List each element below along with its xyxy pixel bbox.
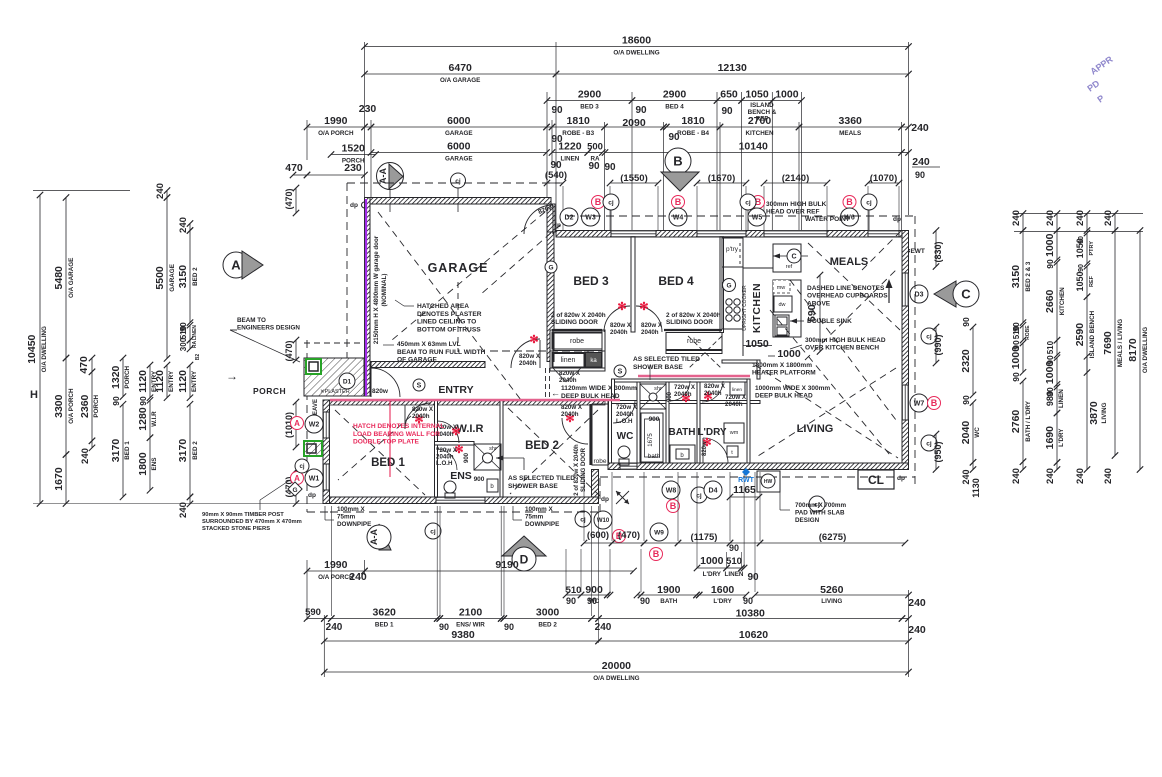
svg-text:ENTRY: ENTRY — [438, 384, 473, 396]
svg-text:900: 900 — [474, 476, 485, 483]
svg-text:W2: W2 — [309, 422, 320, 429]
svg-text:A-A: A-A — [378, 168, 388, 184]
svg-text:B: B — [931, 398, 938, 408]
windows left wall W1 W2 — [323, 412, 330, 438]
svg-text:1120: 1120 — [137, 370, 149, 393]
svg-text:5500: 5500 — [154, 266, 166, 290]
svg-text:D3: D3 — [915, 292, 924, 299]
svg-text:ENGINEERS DESIGN: ENGINEERS DESIGN — [237, 325, 300, 332]
garage top wall — [365, 198, 552, 205]
svg-text:SLIDING DOOR: SLIDING DOOR — [581, 447, 587, 492]
svg-text:PORCH: PORCH — [253, 386, 286, 396]
svg-text:GARAGE: GARAGE — [445, 156, 473, 163]
svg-text:2660: 2660 — [1044, 289, 1056, 313]
svg-text:3360: 3360 — [839, 115, 863, 127]
svg-text:(2140): (2140) — [782, 173, 809, 184]
svg-text:1050: 1050 — [745, 338, 769, 350]
svg-text:90: 90 — [640, 596, 650, 606]
garage right wall — [547, 232, 554, 362]
svg-text:820w X: 820w X — [704, 383, 726, 390]
svg-text:1120: 1120 — [177, 370, 189, 393]
svg-text:3170: 3170 — [177, 439, 189, 463]
svg-text:O/A DWELLING: O/A DWELLING — [1142, 327, 1149, 373]
svg-text:240: 240 — [155, 183, 166, 199]
svg-text:3170: 3170 — [110, 439, 122, 463]
G diamond — [288, 482, 302, 496]
svg-text:(1670): (1670) — [708, 173, 735, 184]
svg-text:90: 90 — [504, 622, 514, 632]
svg-text:3000: 3000 — [536, 607, 560, 619]
svg-text:O/A DWELLING: O/A DWELLING — [613, 50, 659, 57]
svg-text:bath: bath — [648, 453, 661, 460]
svg-text:B: B — [595, 197, 602, 207]
door hall — [511, 339, 540, 368]
svg-text:1990: 1990 — [324, 115, 348, 127]
svg-text:dp: dp — [350, 202, 358, 209]
svg-text:510: 510 — [179, 325, 188, 339]
svg-text:SURROUNDED BY 470mm X 470mm: SURROUNDED BY 470mm X 470mm — [202, 519, 302, 525]
svg-text:1130: 1130 — [971, 478, 981, 498]
wc toilet — [618, 446, 630, 458]
svg-text:240: 240 — [326, 622, 343, 633]
svg-text:O/A PORCH: O/A PORCH — [318, 130, 354, 137]
svg-text:ref: ref — [786, 264, 793, 270]
svg-text:✕PLASTER: ✕PLASTER — [320, 389, 350, 395]
right big columns — [1014, 213, 1143, 215]
svg-text:BED 2: BED 2 — [192, 267, 199, 286]
section marker A left — [223, 252, 249, 278]
svg-text:MEALS: MEALS — [830, 256, 869, 268]
svg-text:BATH: BATH — [660, 598, 677, 605]
svg-text:B: B — [670, 501, 677, 511]
svg-text:3620: 3620 — [373, 607, 397, 619]
robe bed4 — [666, 333, 722, 350]
svg-text:p'try: p'try — [726, 246, 739, 253]
svg-text:6470: 6470 — [449, 62, 473, 74]
svg-text:BED 2: BED 2 — [538, 622, 557, 629]
section marker D bottom — [502, 536, 546, 556]
svg-text:cj: cj — [926, 333, 932, 340]
svg-text:DOUBLE SINK: DOUBLE SINK — [807, 318, 852, 325]
svg-text:20000: 20000 — [602, 660, 631, 672]
door bath — [670, 381, 690, 401]
svg-text:BED 2: BED 2 — [525, 440, 559, 452]
svg-text:REF: REF — [1089, 275, 1095, 287]
svg-text:DOWNPIPE: DOWNPIPE — [337, 521, 371, 528]
svg-text:1000: 1000 — [1044, 361, 1056, 385]
ens toilet — [444, 481, 456, 493]
magenta bulkhead line long — [330, 399, 620, 401]
svg-text:820w: 820w — [702, 441, 708, 456]
svg-text:dp: dp — [601, 496, 609, 503]
svg-text:OVER KITCHEN BENCH: OVER KITCHEN BENCH — [805, 345, 879, 352]
svg-text:240: 240 — [1075, 210, 1086, 226]
svg-text:1800: 1800 — [137, 452, 149, 476]
svg-text:cj: cj — [926, 440, 932, 447]
svg-text:90: 90 — [604, 162, 616, 173]
svg-text:HATCH DENOTES INTERNAL: HATCH DENOTES INTERNAL — [353, 423, 444, 430]
bed wing bottom wall — [323, 497, 599, 504]
svg-text:2590: 2590 — [1074, 323, 1086, 347]
svg-text:BED 2: BED 2 — [192, 441, 199, 460]
svg-text:cj: cj — [745, 199, 751, 206]
door bed2 — [562, 418, 588, 444]
svg-text:(990): (990) — [933, 334, 943, 355]
kitchen overhead dashed — [722, 362, 757, 364]
svg-text:BED 4: BED 4 — [658, 274, 694, 288]
svg-text:2320: 2320 — [960, 349, 972, 373]
svg-text:GARAGE: GARAGE — [445, 130, 473, 137]
svg-text:(NOMINAL): (NOMINAL) — [381, 274, 388, 307]
svg-text:90: 90 — [961, 395, 971, 405]
svg-text:DESIGN: DESIGN — [795, 517, 820, 524]
svg-text:OF GARAGE: OF GARAGE — [397, 357, 438, 364]
svg-text:dp: dp — [893, 216, 901, 223]
svg-text:robe: robe — [593, 458, 606, 465]
svg-text:900: 900 — [585, 584, 603, 596]
svg-text:3150: 3150 — [1010, 265, 1022, 289]
svg-text:linen: linen — [561, 357, 576, 364]
svg-text:(540): (540) — [545, 170, 567, 181]
svg-text:1050: 1050 — [745, 89, 769, 101]
svg-text:2040h: 2040h — [725, 401, 743, 408]
svg-text:240: 240 — [1103, 210, 1114, 226]
svg-text:DOWNPIPE: DOWNPIPE — [525, 521, 559, 528]
svg-text:W8: W8 — [666, 488, 677, 495]
door wc — [613, 401, 635, 423]
svg-text:dw: dw — [778, 302, 785, 308]
svg-text:DENOTES PLASTER: DENOTES PLASTER — [417, 311, 482, 318]
purple garage line — [365, 199, 367, 396]
svg-text:ENS/ WIR: ENS/ WIR — [456, 622, 485, 629]
svg-text:B: B — [653, 549, 660, 559]
svg-text:1000mm WIDE X 300mm: 1000mm WIDE X 300mm — [755, 385, 830, 392]
svg-text:820w X: 820w X — [519, 353, 541, 360]
svg-text:3300: 3300 — [53, 394, 65, 418]
svg-text:L'DRY: L'DRY — [1058, 428, 1065, 447]
svg-text:3870: 3870 — [1088, 401, 1100, 425]
svg-text:2040h: 2040h — [704, 390, 722, 397]
svg-text:1050: 1050 — [1075, 271, 1085, 291]
svg-text:cj: cj — [608, 199, 614, 206]
living bottom wall — [608, 463, 909, 470]
svg-text:980: 980 — [1045, 391, 1055, 406]
svg-text:SHOWER BASE: SHOWER BASE — [633, 364, 683, 371]
svg-text:S: S — [417, 383, 422, 390]
svg-text:500: 500 — [587, 142, 603, 153]
svg-text:HW: HW — [764, 479, 773, 485]
svg-text:18600: 18600 — [622, 35, 651, 47]
svg-text:510: 510 — [566, 585, 582, 596]
svg-text:510: 510 — [1046, 340, 1055, 354]
ka box — [586, 353, 602, 368]
svg-text:LIVING: LIVING — [1101, 402, 1108, 423]
svg-text:ISLAND BENCH: ISLAND BENCH — [1089, 310, 1096, 358]
svg-text:(600): (600) — [587, 530, 609, 541]
svg-text:LINED CEILING TO: LINED CEILING TO — [417, 319, 476, 326]
svg-text:W.I.R: W.I.R — [151, 411, 158, 427]
svg-text:BED 1: BED 1 — [124, 441, 131, 460]
svg-text:240: 240 — [1011, 210, 1022, 226]
svg-text:WC: WC — [974, 427, 981, 438]
bed2 dashes — [508, 408, 600, 496]
svg-text:12130: 12130 — [718, 62, 747, 74]
svg-text:900: 900 — [667, 391, 673, 402]
svg-text:dp: dp — [897, 475, 905, 482]
porch piers — [304, 358, 364, 396]
closet CL — [858, 470, 894, 489]
svg-text:AS SELECTED TILED: AS SELECTED TILED — [508, 475, 575, 482]
svg-text:BED 3: BED 3 — [580, 104, 599, 111]
svg-text:LIVING: LIVING — [797, 423, 834, 435]
svg-text:10140: 10140 — [739, 141, 768, 153]
svg-text:2040: 2040 — [960, 421, 972, 445]
svg-text:PAD WITH SLAB: PAD WITH SLAB — [795, 510, 845, 517]
svg-text:1120mm WIDE X 300mm: 1120mm WIDE X 300mm — [561, 385, 637, 392]
sliding doors bed4 — [664, 329, 722, 331]
svg-text:B: B — [675, 197, 682, 207]
svg-text:510: 510 — [1012, 325, 1021, 339]
svg-text:OVERHEAD CUPBOARDS: OVERHEAD CUPBOARDS — [807, 293, 888, 300]
svg-text:1900: 1900 — [657, 584, 681, 596]
svg-text:2040h: 2040h — [674, 391, 692, 398]
svg-text:BED 2 & 3: BED 2 & 3 — [1025, 261, 1032, 292]
svg-text:UPRIGHT COOKER: UPRIGHT COOKER — [742, 285, 748, 331]
svg-text:cj: cj — [455, 178, 461, 185]
svg-text:2 of 820w X 2040h: 2 of 820w X 2040h — [551, 312, 606, 319]
svg-text:robe: robe — [570, 338, 584, 345]
svg-text:2 of 820w X 2040h: 2 of 820w X 2040h — [574, 444, 580, 496]
svg-text:dp: dp — [308, 492, 316, 499]
svg-text:W9: W9 — [654, 529, 664, 536]
left dimension block — [33, 190, 130, 192]
svg-text:3150: 3150 — [177, 265, 189, 289]
svg-text:cj: cj — [580, 516, 586, 523]
garage bottom wall — [371, 362, 485, 368]
svg-text:A-A: A-A — [369, 529, 379, 545]
hall bulkhead dashes — [490, 350, 605, 352]
svg-text:90: 90 — [1078, 264, 1085, 272]
svg-text:DEEP BULK HEAD: DEEP BULK HEAD — [755, 393, 813, 400]
svg-text:✻: ✻ — [529, 334, 538, 346]
svg-text:1990: 1990 — [324, 559, 348, 571]
svg-text:CL: CL — [868, 473, 884, 487]
svg-text:2900: 2900 — [663, 89, 687, 101]
svg-text:230: 230 — [359, 103, 377, 115]
svg-text:STACKED STONE PIERS: STACKED STONE PIERS — [202, 526, 270, 532]
svg-text:1000: 1000 — [700, 555, 724, 567]
svg-text:7690: 7690 — [1102, 331, 1114, 355]
svg-text:75mm: 75mm — [525, 514, 544, 521]
hws — [757, 471, 780, 492]
svg-text:DOUBLE TOP PLATE: DOUBLE TOP PLATE — [353, 439, 420, 446]
red A circles left — [291, 417, 304, 430]
svg-text:D1: D1 — [343, 378, 352, 385]
svg-text:1000: 1000 — [1010, 346, 1022, 370]
svg-text:✻: ✻ — [639, 301, 648, 313]
svg-text:C: C — [961, 287, 971, 302]
svg-text:LIVING: LIVING — [821, 598, 842, 605]
eaves dashed outline — [346, 183, 348, 362]
bath vanity — [670, 445, 695, 463]
svg-text:L'DRY: L'DRY — [713, 598, 732, 605]
svg-text:PORCH: PORCH — [124, 365, 131, 388]
svg-text:720w X: 720w X — [674, 384, 696, 391]
svg-text:C: C — [791, 254, 796, 261]
svg-text:LINEN: LINEN — [560, 156, 579, 163]
tub — [727, 446, 738, 457]
svg-text:EAVE: EAVE — [313, 399, 319, 415]
svg-text:DASHED LINE DENOTES: DASHED LINE DENOTES — [807, 285, 885, 292]
svg-text:2040h: 2040h — [412, 413, 430, 420]
fridge space — [773, 244, 801, 272]
svg-text:240: 240 — [908, 597, 926, 609]
svg-text:SLIDING DOOR: SLIDING DOOR — [551, 319, 598, 326]
svg-text:900: 900 — [464, 452, 470, 463]
svg-text:2090: 2090 — [622, 117, 646, 129]
door ens — [436, 449, 457, 470]
svg-text:90: 90 — [138, 396, 148, 406]
svg-text:(1550): (1550) — [620, 173, 647, 184]
svg-text:1675: 1675 — [648, 433, 654, 447]
svg-text:300mm HIGH BULK HEAD: 300mm HIGH BULK HEAD — [805, 337, 886, 344]
svg-text:240: 240 — [1011, 468, 1022, 484]
svg-text:BEAM TO: BEAM TO — [237, 317, 266, 324]
svg-text:10380: 10380 — [736, 608, 765, 620]
svg-text:90: 90 — [439, 622, 449, 632]
svg-text:1810: 1810 — [567, 115, 591, 127]
svg-text:90: 90 — [743, 596, 753, 606]
svg-text:L.O.H: L.O.H — [616, 418, 633, 425]
svg-text:90: 90 — [747, 572, 759, 583]
svg-text:L'DRY: L'DRY — [703, 571, 722, 578]
svg-text:cj: cj — [430, 528, 436, 535]
svg-text:240: 240 — [349, 571, 367, 583]
590 dim — [819, 275, 821, 352]
robe bed2 — [592, 404, 608, 465]
svg-text:90: 90 — [1045, 259, 1055, 269]
section marker C right — [934, 281, 956, 307]
red vline — [389, 401, 391, 477]
dwelling top wall — [556, 231, 902, 238]
svg-text:820w: 820w — [372, 388, 389, 395]
kitchen bench — [742, 268, 744, 356]
svg-text:90: 90 — [961, 317, 971, 327]
svg-text:6000: 6000 — [447, 141, 471, 153]
cooktop — [722, 267, 743, 329]
windows top wall — [611, 231, 656, 238]
svg-text:B2: B2 — [195, 354, 201, 361]
kitchen walls — [722, 360, 760, 363]
svg-text:90: 90 — [566, 596, 576, 606]
door ldry external — [703, 438, 728, 463]
bed1 top wall / load bearing — [330, 401, 606, 405]
svg-text:820w X: 820w X — [610, 322, 632, 329]
svg-text:2040h: 2040h — [641, 329, 659, 336]
door bed4 — [636, 306, 662, 332]
pantry — [722, 238, 743, 267]
svg-text:O/A GARAGE: O/A GARAGE — [68, 258, 75, 298]
svg-text:2040h: 2040h — [519, 360, 537, 367]
svg-text:D: D — [520, 552, 529, 566]
svg-text:ENTRY: ENTRY — [168, 370, 175, 392]
svg-text:1120: 1120 — [154, 370, 166, 393]
svg-text:90: 90 — [635, 105, 647, 116]
ens shower — [474, 444, 501, 470]
svg-text:L.O.H: L.O.H — [436, 460, 453, 467]
door garage rear D2 — [524, 205, 553, 234]
svg-text:(470): (470) — [284, 340, 294, 361]
washing machine — [724, 423, 744, 443]
bath tub — [641, 413, 663, 462]
svg-text:10450: 10450 — [26, 334, 38, 363]
svg-text:O/A DWELLING: O/A DWELLING — [593, 675, 639, 682]
svg-text:1000: 1000 — [775, 89, 799, 101]
section marker B top — [665, 148, 691, 174]
svg-text:H: H — [30, 389, 38, 401]
svg-text:2360: 2360 — [79, 394, 91, 418]
svg-text:6000: 6000 — [447, 115, 471, 127]
svg-text:O/A DWELLING: O/A DWELLING — [41, 326, 48, 372]
svg-text:shr: shr — [654, 386, 662, 392]
svg-text:MEALS / LIVING: MEALS / LIVING — [1117, 319, 1124, 367]
svg-text:720w X: 720w X — [725, 394, 747, 401]
svg-text:300mm HIGH BULK: 300mm HIGH BULK — [766, 201, 827, 208]
magenta bulkhead line upper — [638, 375, 750, 377]
svg-text:5260: 5260 — [820, 584, 844, 596]
svg-text:→: → — [226, 369, 238, 383]
door front entry — [371, 368, 400, 397]
svg-text:240: 240 — [912, 156, 930, 168]
svg-text:230: 230 — [344, 162, 362, 174]
svg-text:90: 90 — [729, 543, 739, 553]
svg-text:9380: 9380 — [451, 629, 475, 641]
svg-text:(950): (950) — [933, 441, 943, 462]
svg-text:10620: 10620 — [739, 629, 768, 641]
svg-text:240: 240 — [1103, 468, 1114, 484]
svg-text:240: 240 — [595, 622, 612, 633]
svg-text:240: 240 — [961, 469, 971, 484]
svg-text:PTRY: PTRY — [1089, 241, 1095, 256]
svg-text:90: 90 — [1011, 372, 1021, 382]
svg-text:RWT: RWT — [738, 477, 755, 484]
svg-text:1690: 1690 — [1044, 426, 1056, 450]
svg-text:240: 240 — [1045, 210, 1056, 226]
svg-text:700mm X 700mm: 700mm X 700mm — [795, 502, 847, 509]
svg-text:(830): (830) — [933, 241, 943, 262]
svg-text:510: 510 — [726, 556, 742, 567]
svg-text:8170: 8170 — [1127, 338, 1139, 362]
svg-text:2900: 2900 — [578, 89, 602, 101]
top dimension block — [364, 42, 366, 198]
svg-text:1280: 1280 — [137, 407, 149, 431]
svg-text:ABOVE: ABOVE — [807, 300, 831, 307]
svg-text:O/A PORCH: O/A PORCH — [68, 388, 75, 424]
svg-text:900: 900 — [649, 416, 660, 423]
svg-text:ka: ka — [590, 358, 597, 364]
svg-text:2040h: 2040h — [561, 411, 579, 418]
section marker A-A top — [377, 163, 404, 190]
svg-text:B: B — [846, 197, 853, 207]
hall walls — [608, 401, 760, 404]
ldry linen — [730, 382, 745, 395]
bed1 left wall — [323, 400, 330, 504]
svg-text:(6275): (6275) — [819, 532, 846, 543]
meals arrow — [888, 283, 890, 303]
wc shower — [640, 384, 666, 409]
svg-text:HEATER PLATFORM: HEATER PLATFORM — [752, 370, 816, 377]
door wir — [437, 421, 459, 443]
